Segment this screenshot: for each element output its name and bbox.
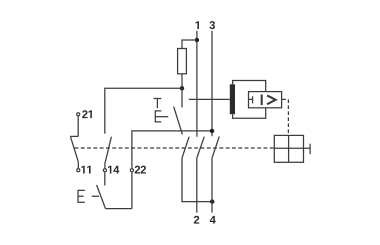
contact blade: test contact <box>174 107 183 135</box>
terminal circle 11 <box>77 169 80 172</box>
mechanical link: lower actuator to blade <box>78 195 99 197</box>
wire: bottom link to 22 <box>106 208 132 210</box>
contact seat (NC) for 21 <box>70 135 78 137</box>
wire: CT primary conductor <box>189 98 230 100</box>
relay input tick <box>249 96 253 103</box>
node: test-resistor tap on line 1 <box>195 38 199 42</box>
terminal label 4 <box>210 216 216 224</box>
relay U1 (residual current release) box <box>249 92 282 108</box>
wire: resistor to test junction <box>181 74 183 89</box>
contact blade: aux NC 21-11 <box>70 136 78 161</box>
dashed trip link to mechanism <box>287 99 289 135</box>
terminal circle 22 <box>130 169 133 172</box>
terminal label 1 <box>196 21 199 29</box>
terminal label 21 <box>82 110 92 118</box>
terminal circle 21 <box>77 113 80 116</box>
terminal label 2 <box>194 216 199 224</box>
relay symbol I <box>261 95 263 106</box>
mechanism box cross horizontal and handle shaft <box>274 147 310 149</box>
wire: pole A bottom to line 4 <box>182 158 212 202</box>
test button cap (T symbol) <box>154 99 162 109</box>
wire: supply line 3 <box>211 31 213 137</box>
terminal label 3 <box>209 21 215 29</box>
contact blade: pole 3-4 <box>212 136 219 158</box>
terminal label 14 <box>108 166 119 174</box>
wire: 14 lower lead <box>104 172 106 185</box>
mechanism box cross vertical <box>288 135 290 162</box>
test button manual actuator (E symbol) <box>155 110 161 122</box>
terminal label 22 <box>135 166 146 174</box>
wire: line 2 lower lead <box>196 158 198 213</box>
wire: supply line 1 <box>196 31 198 137</box>
wire: tap to resistor <box>182 40 197 49</box>
wire: 21 lead down <box>77 116 79 136</box>
wire: test contact fixed lead <box>181 88 183 107</box>
wire: stub above 14 <box>104 164 106 169</box>
manual handle T-bar <box>309 144 311 154</box>
wire: line 4 lower lead <box>211 158 213 213</box>
resistor R1 (test resistor) <box>178 49 187 74</box>
contact blade: pole A (test path) <box>182 137 189 158</box>
terminal circle 14 <box>103 169 106 172</box>
node: junction bottom of line 4 <box>210 199 214 203</box>
mechanical link: test button to blade <box>155 116 168 118</box>
wire: stub above 11 <box>77 162 79 168</box>
contact blade: pole 1-2 <box>197 137 205 158</box>
wire: test junction to aux contact 14 <box>105 88 182 133</box>
wire: 22 lower lead <box>131 172 133 208</box>
contact blade: aux NO 14 <box>105 137 112 164</box>
node: test branch junction <box>180 86 184 90</box>
contact blade: lower NO contact <box>97 185 106 209</box>
current transformer CT (sensing toroid) <box>230 84 235 114</box>
wire: CT secondary loop to relay <box>233 81 266 119</box>
lower manual actuator (E symbol) <box>78 190 85 203</box>
node: junction on line 3 <box>210 129 214 133</box>
wire: relay output stub <box>282 98 286 100</box>
mechanical linkage (dashed) to all contacts <box>75 147 275 149</box>
terminal label 11 <box>81 166 90 174</box>
relay symbol &gt; <box>267 95 276 104</box>
wire: test circuit to line 3 (load side) <box>132 131 212 168</box>
mechanism box <box>274 135 303 162</box>
